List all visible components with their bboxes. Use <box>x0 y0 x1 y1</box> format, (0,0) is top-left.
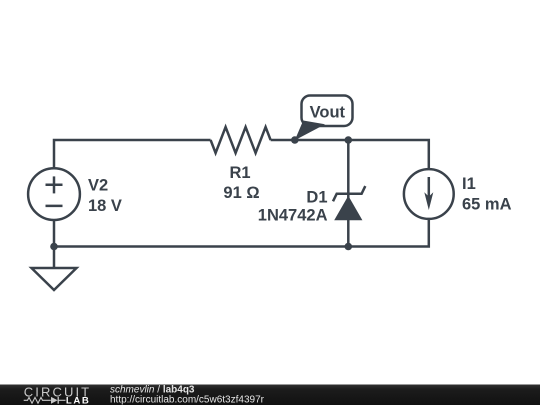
svg-text:I1: I1 <box>462 175 476 193</box>
label I1 65 mA <box>462 175 512 214</box>
svg-text:D1: D1 <box>306 189 327 207</box>
label V2 18 V <box>88 177 122 216</box>
ground <box>32 268 77 290</box>
wire: V2 bottom to ground <box>53 221 56 269</box>
node junction dot bottom of D1 <box>345 243 353 251</box>
svg-text:LAB: LAB <box>66 395 91 405</box>
node Vout junction dot <box>291 136 299 144</box>
attribution text <box>110 385 265 406</box>
wire top: resistor right to current source top <box>271 140 429 170</box>
svg-text:http://circuitlab.com/c5w6t3zf: http://circuitlab.com/c5w6t3zf4397r <box>110 394 265 405</box>
wire: zener branch vertical <box>347 140 350 247</box>
wire top: V2 top to resistor left <box>54 140 211 168</box>
voltage source V2 <box>28 168 80 220</box>
resistor R1 zigzag <box>211 127 271 153</box>
svg-text:65 mA: 65 mA <box>462 196 512 214</box>
node junction dot bottom left <box>50 243 58 251</box>
current source I1 <box>404 169 454 219</box>
svg-text:18 V: 18 V <box>88 197 122 215</box>
CircuitLab logo <box>24 384 92 406</box>
svg-text:Vout: Vout <box>310 104 346 122</box>
svg-text:V2: V2 <box>88 177 108 195</box>
node junction dot top of D1 <box>345 136 353 144</box>
wire bottom: ground node to current source bottom <box>54 219 429 247</box>
label Vout callout <box>295 96 353 141</box>
label R1 91 Ω <box>223 164 259 202</box>
label D1 1N4742A <box>258 189 328 225</box>
svg-text:91 Ω: 91 Ω <box>223 184 259 202</box>
zener diode D1 <box>333 186 365 220</box>
svg-text:R1: R1 <box>229 164 250 182</box>
svg-text:1N4742A: 1N4742A <box>258 207 328 225</box>
footer bar <box>0 385 540 406</box>
